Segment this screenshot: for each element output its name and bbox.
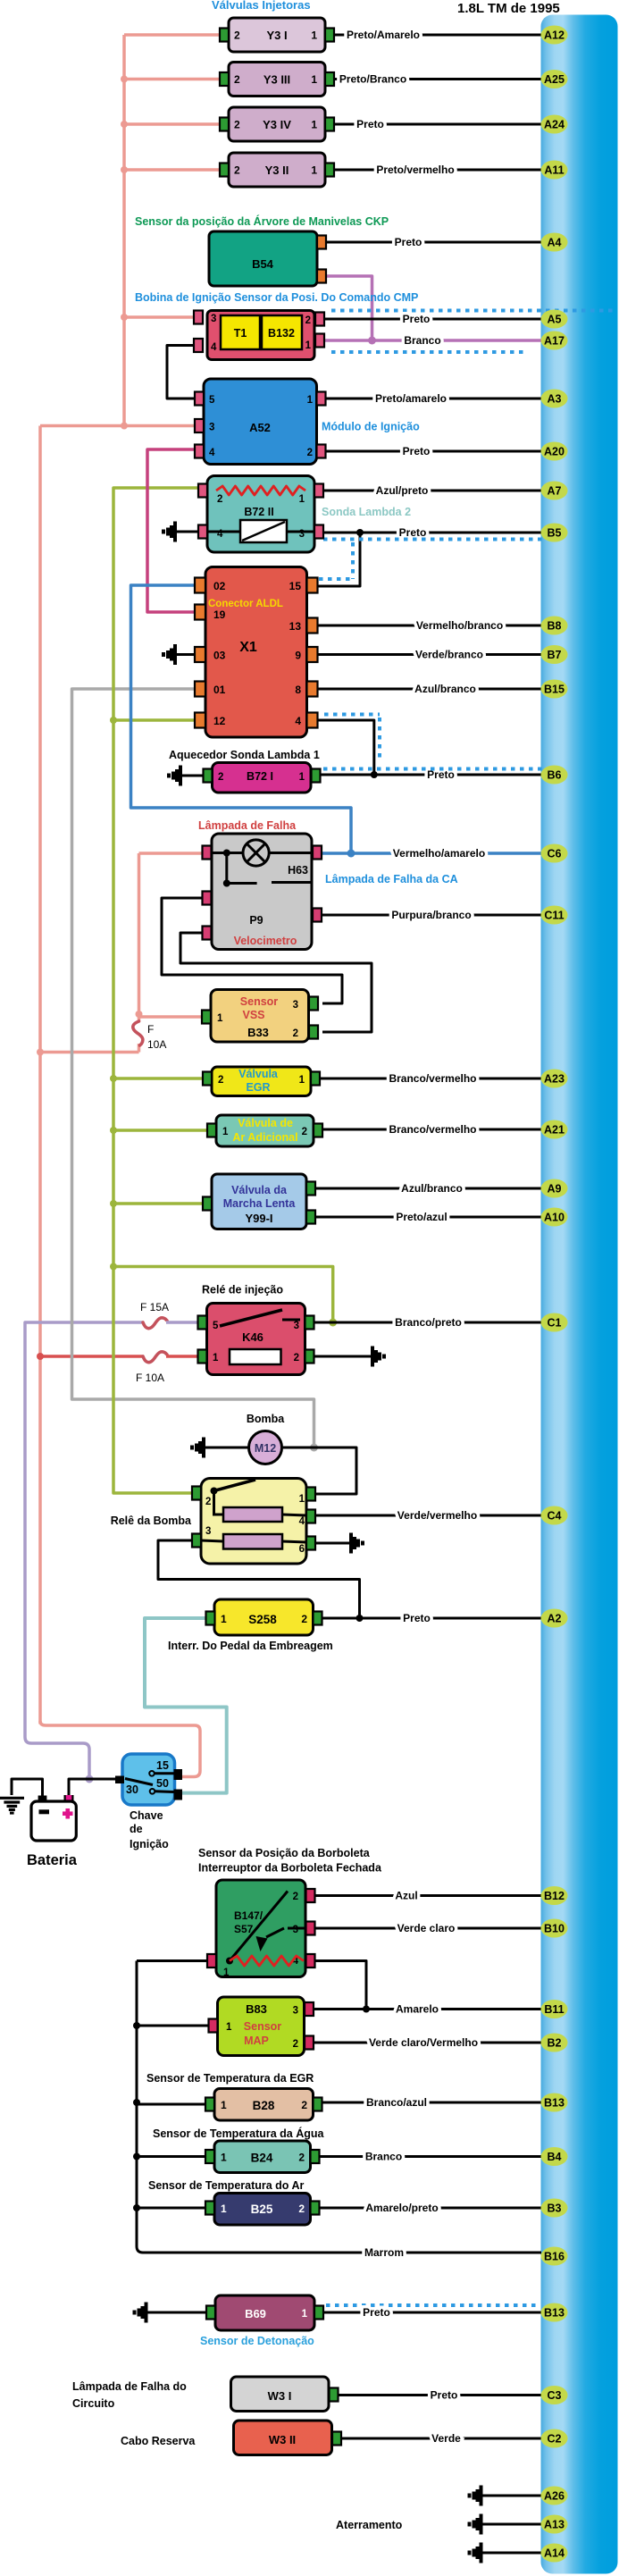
wire salmon branch Y3 IV <box>124 122 220 126</box>
wire B147 pin1 to sensor bus <box>137 1959 207 1962</box>
svg-text:Branco/vermelho: Branco/vermelho <box>389 1123 476 1136</box>
wire to B10 <box>315 1927 541 1930</box>
wire battery plus to ignition switch <box>69 1779 122 1801</box>
svg-text:MAP: MAP <box>244 2035 269 2047</box>
junction gray on pump wire <box>310 1444 318 1452</box>
additional air valve <box>207 1115 322 1146</box>
wire to A3 <box>326 398 542 400</box>
ECU pin A12 <box>541 26 568 45</box>
svg-text:Preto: Preto <box>399 526 427 539</box>
svg-text:Velocimetro: Velocimetro <box>234 935 297 947</box>
junction salmon fuse branch <box>37 1049 44 1056</box>
svg-text:2: 2 <box>301 1613 307 1625</box>
svg-text:Preto: Preto <box>356 118 384 130</box>
svg-text:Lâmpada de Falha do: Lâmpada de Falha do <box>72 2380 187 2393</box>
svg-text:15: 15 <box>289 580 302 592</box>
EGR valve <box>203 1067 320 1096</box>
wire salmon to B33 pin1 <box>139 1015 203 1019</box>
wire ground to B72-I pin2 <box>182 775 203 777</box>
svg-text:Purpura/branco: Purpura/branco <box>391 909 471 921</box>
svg-text:P9: P9 <box>249 914 263 927</box>
svg-text:Cabo Reserva: Cabo Reserva <box>121 2435 196 2447</box>
svg-text:Preto: Preto <box>395 236 422 248</box>
pump relay internals <box>201 1480 306 1549</box>
ground B72 II pin4 <box>162 522 177 542</box>
wire olive branch Ar Adicional <box>113 1129 207 1132</box>
ECU pin B6 <box>541 766 568 785</box>
svg-text:Chave: Chave <box>130 1809 163 1822</box>
svg-text:Preto/azul: Preto/azul <box>396 1211 447 1223</box>
ECU connector panel <box>541 15 618 2574</box>
svg-text:3: 3 <box>294 1321 299 1331</box>
ECU pin A13 <box>541 2515 568 2534</box>
svg-text:3: 3 <box>293 1925 298 1935</box>
wire B147 pin4 down to B11 wire <box>315 1961 366 2008</box>
svg-text:1: 1 <box>226 2022 232 2033</box>
ECU pin B7 <box>541 645 568 664</box>
wire violet F15A from battery <box>25 1322 143 1737</box>
wire to A21 <box>322 1129 541 1131</box>
svg-text:3: 3 <box>293 2006 298 2017</box>
wire pump relay pin3 to clutch switch net <box>158 1540 360 1615</box>
svg-text:Aterramento: Aterramento <box>336 2519 403 2531</box>
wire P9 pin mid to B33 pin3 <box>162 898 342 1003</box>
wire to B13 <box>323 2312 541 2314</box>
junction purple on Branco wire <box>368 337 376 345</box>
svg-text:1: 1 <box>311 119 317 131</box>
svg-text:2: 2 <box>218 772 223 783</box>
resistor element B72 II <box>216 486 305 495</box>
svg-text:B24: B24 <box>251 2152 273 2165</box>
svg-text:3: 3 <box>209 423 214 433</box>
ECU pin B12 <box>541 1886 568 1905</box>
svg-text:Lâmpada de Falha: Lâmpada de Falha <box>198 819 297 832</box>
wire to B13 <box>322 2102 542 2104</box>
junction pump relay pin3 on A2 wire <box>356 1615 364 1622</box>
svg-text:A14: A14 <box>544 2547 565 2560</box>
wire to A7 <box>323 490 541 492</box>
svg-text:B3: B3 <box>548 2203 562 2215</box>
ground symbol battery <box>0 1798 24 1813</box>
ground B69 <box>133 2303 148 2323</box>
svg-text:1: 1 <box>223 1968 230 1978</box>
svg-text:A21: A21 <box>544 1124 565 1137</box>
shield dash B5 horizontal <box>323 538 547 541</box>
svg-text:Amarelo/preto: Amarelo/preto <box>365 2202 438 2214</box>
wire to B3 <box>320 2207 542 2210</box>
ECU pin B13 <box>541 2094 568 2112</box>
svg-text:8: 8 <box>295 684 301 696</box>
wire to B2 <box>314 2042 542 2044</box>
wire to B8 <box>319 625 542 627</box>
switch arm K46 <box>220 1310 300 1326</box>
svg-text:Interr. Do Pedal da Embreagem: Interr. Do Pedal da Embreagem <box>168 1640 333 1652</box>
svg-text:A26: A26 <box>544 2490 565 2503</box>
injection relay K46 <box>198 1304 314 1375</box>
wire K46 pin2 to ground <box>314 1355 372 1358</box>
wire battery minus to ground <box>12 1779 43 1801</box>
svg-text:Sensor de Detonação: Sensor de Detonação <box>200 2335 314 2347</box>
svg-text:A3: A3 <box>548 393 562 406</box>
wire B24 pin1 to sensor bus <box>137 2155 205 2158</box>
ECU pin A5 <box>541 310 568 329</box>
shield dash above Preto CMP <box>331 309 615 313</box>
svg-text:1: 1 <box>221 2099 227 2111</box>
MAP sensor B83 <box>209 1997 314 2056</box>
svg-text:5: 5 <box>209 395 215 406</box>
svg-text:1: 1 <box>299 1075 305 1086</box>
wire salmon branch A52 pin3 <box>124 424 195 428</box>
svg-text:A23: A23 <box>544 1073 565 1086</box>
svg-text:2: 2 <box>293 2039 298 2050</box>
ECU pin B10 <box>541 1919 568 1938</box>
svg-text:1: 1 <box>221 1613 227 1625</box>
svg-text:B72 II: B72 II <box>244 506 273 518</box>
ECU pin B3 <box>541 2199 568 2218</box>
battery Bateria <box>31 1795 76 1841</box>
wire to B4 <box>320 2155 542 2158</box>
junction salmon Y3 III <box>121 76 128 83</box>
svg-text:Vermelho/branco: Vermelho/branco <box>416 619 503 632</box>
wire to A10 <box>315 1216 541 1219</box>
svg-text:Sensor: Sensor <box>244 2020 282 2033</box>
wire to A20 <box>326 450 542 453</box>
svg-text:2: 2 <box>293 1028 298 1039</box>
svg-text:B33: B33 <box>247 1026 269 1039</box>
svg-text:B28: B28 <box>253 2099 275 2112</box>
svg-text:Preto/Branco: Preto/Branco <box>339 73 406 86</box>
svg-text:2: 2 <box>298 2152 305 2164</box>
ECU pin A10 <box>541 1208 568 1227</box>
svg-text:B7: B7 <box>548 649 562 661</box>
svg-text:Branco/preto: Branco/preto <box>395 1316 462 1329</box>
wire to C4 <box>315 1515 541 1517</box>
svg-text:H63: H63 <box>288 864 308 877</box>
svg-text:5: 5 <box>213 1321 219 1331</box>
svg-text:2: 2 <box>305 315 311 326</box>
svg-text:Preto/Amarelo: Preto/Amarelo <box>347 29 420 41</box>
injector valve Y3 III <box>220 63 334 96</box>
wire to B7 <box>319 653 542 656</box>
svg-text:Preto: Preto <box>403 313 431 325</box>
svg-text:30: 30 <box>126 1783 138 1796</box>
ECU pin B13 <box>541 2303 568 2322</box>
EGR temperature sensor B28 <box>205 2089 322 2121</box>
svg-text:1: 1 <box>213 1353 219 1364</box>
svg-text:B6: B6 <box>548 769 562 782</box>
wire to B15 <box>319 688 542 691</box>
pin labels B72 II <box>217 494 305 540</box>
svg-text:3: 3 <box>293 1000 298 1011</box>
svg-text:M12: M12 <box>255 1442 276 1455</box>
svg-text:B2: B2 <box>548 2037 562 2050</box>
svg-text:B8: B8 <box>548 620 562 633</box>
ECU pin B2 <box>541 2034 568 2052</box>
ECU pin A24 <box>541 115 568 134</box>
svg-text:9: 9 <box>295 650 301 662</box>
ECU pin A14 <box>541 2544 568 2563</box>
ignition coil T1 B132 <box>194 311 324 360</box>
junction bus B24 <box>133 2153 140 2161</box>
svg-text:A17: A17 <box>544 335 565 348</box>
svg-text:B72 I: B72 I <box>247 770 273 783</box>
wire to B5 <box>323 532 541 534</box>
svg-text:A20: A20 <box>544 446 565 458</box>
svg-text:Preto: Preto <box>403 445 431 457</box>
svg-text:Verde claro/Vermelho: Verde claro/Vermelho <box>369 2036 478 2049</box>
ECU pin A2 <box>541 1609 568 1628</box>
ground B72 I pin2 <box>167 766 182 786</box>
wire ground to A13 <box>483 2523 542 2526</box>
wire violet fuse to K46 pin5 <box>166 1321 198 1324</box>
air temperature sensor B25 <box>205 2194 320 2226</box>
svg-text:2: 2 <box>301 2099 307 2111</box>
svg-text:B132: B132 <box>268 327 295 340</box>
junction salmon A52 <box>121 423 128 430</box>
wire red fuse to K46 pin1 <box>166 1355 198 1358</box>
knock sensor B69 <box>206 2295 323 2330</box>
svg-text:Azul/preto: Azul/preto <box>376 484 429 497</box>
svg-text:2: 2 <box>294 1353 299 1364</box>
wire olive branch X1 pin12 <box>113 718 194 722</box>
svg-text:C2: C2 <box>548 2433 562 2446</box>
svg-text:Válvula de: Válvula de <box>238 1117 293 1129</box>
label Chave de Ignicao <box>130 1809 169 1850</box>
fuse F 10A (B33 feed) <box>133 1021 143 1045</box>
svg-text:Preto/amarelo: Preto/amarelo <box>375 392 447 405</box>
crankshaft position sensor B54 <box>209 231 326 286</box>
wire salmon bus upper corner to Y3 I <box>124 33 220 37</box>
svg-text:3: 3 <box>205 1526 211 1537</box>
svg-text:B54: B54 <box>252 257 274 271</box>
svg-text:C4: C4 <box>548 1510 562 1523</box>
wire salmon branch Y3 II <box>124 168 220 172</box>
shield dash B13 knock <box>326 2303 536 2307</box>
svg-text:F 10A: F 10A <box>136 1372 164 1384</box>
shield dash lambda2 loop vertical <box>351 542 355 579</box>
ignition switch contacts <box>125 1771 174 1794</box>
junction bus B83 <box>133 2022 140 2029</box>
svg-text:2: 2 <box>234 73 240 86</box>
ECU pin B5 <box>541 524 568 542</box>
ECU pin A7 <box>541 482 568 500</box>
svg-text:Sensor de Temperatura da Água: Sensor de Temperatura da Água <box>153 2127 325 2140</box>
shield dash below Branco CMP <box>331 350 528 354</box>
pump relay <box>192 1479 315 1565</box>
lambda heater B72 I <box>204 763 321 793</box>
wire salmon bus jog left at y477 <box>40 424 124 428</box>
throttle position sensor B147 S57 <box>207 1880 315 1978</box>
ECU pin C1 <box>541 1313 568 1332</box>
svg-text:Marrom: Marrom <box>364 2246 404 2259</box>
svg-text:Sensor de Temperatura da EGR: Sensor de Temperatura da EGR <box>146 2072 314 2085</box>
wire to A11 <box>334 169 541 172</box>
svg-text:2: 2 <box>293 1892 298 1902</box>
svg-text:F: F <box>147 1023 154 1036</box>
wire B72-I pin1 to junction <box>321 774 374 776</box>
wire X1 pin4 to B6 junction <box>319 720 374 775</box>
svg-text:1: 1 <box>299 494 305 505</box>
ignition module A52 <box>195 379 326 465</box>
ground arrow A26 <box>468 2486 483 2506</box>
svg-text:Módulo de Ignição: Módulo de Ignição <box>322 421 420 433</box>
svg-text:B147/: B147/ <box>234 1909 263 1922</box>
wire to C2 <box>342 2438 542 2440</box>
svg-text:Ar Adicional: Ar Adicional <box>232 1131 297 1144</box>
junction salmon Y3 II <box>121 166 128 173</box>
svg-text:1: 1 <box>221 2152 227 2164</box>
ground X1 pin03 <box>162 644 177 665</box>
svg-text:T1: T1 <box>234 327 247 340</box>
wire salmon riser to H63 pin <box>138 853 141 1014</box>
svg-text:6: 6 <box>299 1544 305 1555</box>
pump motor M12 <box>249 1431 282 1464</box>
wire Branco B132 pin1 to A17 <box>324 339 541 342</box>
ECU pin B8 <box>541 617 568 635</box>
svg-text:Relê da Bomba: Relê da Bomba <box>111 1515 192 1527</box>
svg-text:Sensor da Posição da Borboleta: Sensor da Posição da Borboleta <box>198 1847 371 1859</box>
svg-text:A24: A24 <box>544 119 565 131</box>
svg-text:Azul/branco: Azul/branco <box>414 683 476 695</box>
svg-text:02: 02 <box>213 580 226 592</box>
svg-text:1: 1 <box>311 73 317 86</box>
ECU pin A4 <box>541 233 568 252</box>
throttle internals switch arm <box>226 1892 305 1965</box>
wire blue H63 to C6 <box>322 852 541 855</box>
ECU pin A3 <box>541 390 568 408</box>
svg-text:2: 2 <box>234 29 240 42</box>
junction salmon T1 <box>121 314 128 321</box>
svg-text:Y3 II: Y3 II <box>265 164 289 177</box>
svg-text:2: 2 <box>307 448 313 458</box>
svg-text:de: de <box>130 1823 143 1835</box>
wire M12 to relay pin1 <box>282 1447 357 1494</box>
svg-text:A12: A12 <box>544 29 565 42</box>
wire to A12 <box>334 34 541 37</box>
ECU pin C3 <box>541 2386 568 2404</box>
ECU pin A11 <box>541 161 568 180</box>
wire to A4 <box>326 241 541 244</box>
svg-text:Branco: Branco <box>404 334 440 347</box>
svg-text:50: 50 <box>156 1777 169 1790</box>
svg-text:15: 15 <box>156 1759 169 1772</box>
svg-text:A2: A2 <box>548 1613 562 1625</box>
svg-text:19: 19 <box>213 608 226 621</box>
svg-text:Aquecedor Sonda Lambda 1: Aquecedor Sonda Lambda 1 <box>169 749 320 761</box>
clutch pedal switch S258 <box>206 1599 322 1635</box>
svg-text:Circuito: Circuito <box>72 2397 115 2410</box>
svg-text:1: 1 <box>311 29 317 42</box>
svg-text:S258: S258 <box>248 1613 277 1626</box>
injector valve Y3 II <box>220 153 334 187</box>
wire B28 pin1 to sensor bus <box>137 2103 205 2106</box>
svg-text:10A: 10A <box>147 1038 166 1051</box>
wire ground to B69 pin <box>148 2312 212 2314</box>
labels H63 P9 Velocimetro <box>234 864 308 947</box>
wire ground to B72-II pin4 <box>177 531 198 533</box>
svg-text:Sensor de Temperatura do Ar: Sensor de Temperatura do Ar <box>148 2179 304 2192</box>
svg-text:03: 03 <box>213 650 226 662</box>
svg-text:A9: A9 <box>548 1183 562 1196</box>
svg-text:B11: B11 <box>544 2003 564 2016</box>
svg-text:13: 13 <box>289 620 302 633</box>
svg-text:C11: C11 <box>544 910 564 922</box>
wire B83 pin1 to sensor bus <box>137 2025 209 2027</box>
wire ground to M12 <box>205 1447 249 1449</box>
svg-text:Vermelho/amarelo: Vermelho/amarelo <box>393 847 485 860</box>
circuit failure lamp W3 I <box>231 2377 339 2412</box>
svg-text:1: 1 <box>299 1494 305 1505</box>
svg-text:Branco: Branco <box>365 2151 402 2163</box>
junction B147 pin4 on B11 wire <box>363 2006 370 2013</box>
svg-text:Amarelo: Amarelo <box>396 2003 439 2016</box>
svg-text:12: 12 <box>213 715 226 727</box>
svg-text:C1: C1 <box>548 1317 562 1330</box>
ECU pin B4 <box>541 2147 568 2166</box>
svg-text:S57: S57 <box>234 1923 254 1935</box>
svg-text:1.8L TM de 1995: 1.8L TM de 1995 <box>457 1 560 16</box>
svg-text:Interreuptor da Borboleta Fech: Interreuptor da Borboleta Fechada <box>198 1862 382 1875</box>
shield dash X1 pin4 vertical <box>378 717 381 761</box>
svg-text:B16: B16 <box>544 2251 565 2263</box>
fuse F 15A <box>143 1318 167 1329</box>
junction olive X1 12 <box>110 717 117 724</box>
svg-text:1: 1 <box>305 340 312 351</box>
shield dash X1 pin4 top <box>324 713 380 717</box>
junction olive ArAd <box>110 1127 117 1134</box>
ground arrow A13 <box>468 2514 483 2535</box>
wire salmon branch Y3 III <box>124 78 220 81</box>
label Lampada de Falha do Circuito <box>72 2380 187 2410</box>
junction olive K46 branch <box>110 1263 117 1271</box>
svg-text:A25: A25 <box>544 73 565 86</box>
svg-text:B4: B4 <box>548 2151 562 2163</box>
svg-text:Y3 IV: Y3 IV <box>263 118 291 131</box>
svg-text:Preto: Preto <box>431 2389 458 2402</box>
svg-text:Conector ALDL: Conector ALDL <box>208 599 283 609</box>
junction salmon red K46 branch <box>37 1353 44 1360</box>
lambda sensor B72 II <box>198 476 323 553</box>
junction olive Marcha <box>110 1200 117 1207</box>
svg-text:B10: B10 <box>544 1923 565 1935</box>
wire black sensor bus to B16 <box>137 1961 541 2253</box>
svg-text:Válvulas Injetoras: Válvulas Injetoras <box>212 0 311 12</box>
svg-text:Azul/branco: Azul/branco <box>401 1182 463 1195</box>
svg-text:A4: A4 <box>548 237 562 249</box>
ECU pin A17 <box>541 331 568 350</box>
wire salmon fuse riser x155 <box>138 1044 141 1053</box>
svg-text:Válvula da: Válvula da <box>231 1184 288 1196</box>
svg-text:B69: B69 <box>245 2307 266 2320</box>
svg-text:A11: A11 <box>544 164 564 177</box>
svg-text:B13: B13 <box>544 2307 565 2320</box>
wire crimson A52 pin4 to X1 pin19 <box>147 449 198 612</box>
svg-text:1: 1 <box>299 772 305 783</box>
wire salmon branch to fuse F10A B33 <box>40 1051 139 1054</box>
svg-text:Azul: Azul <box>395 1890 417 1902</box>
svg-text:Ignição: Ignição <box>130 1838 169 1850</box>
svg-text:Y3 I: Y3 I <box>266 29 287 42</box>
svg-text:Branco/vermelho: Branco/vermelho <box>389 1072 476 1085</box>
wire ground to X1 pin03 <box>177 653 195 656</box>
heater element B72 II <box>240 520 287 542</box>
wire red to fuse F10A K46 <box>40 1355 143 1358</box>
wire salmon branch T1 pin3 <box>124 315 198 319</box>
svg-text:A13: A13 <box>544 2519 565 2531</box>
wire to A5 <box>324 318 541 321</box>
svg-text:Y99-I: Y99-I <box>245 1212 272 1225</box>
junction bus B28 <box>133 2099 140 2106</box>
